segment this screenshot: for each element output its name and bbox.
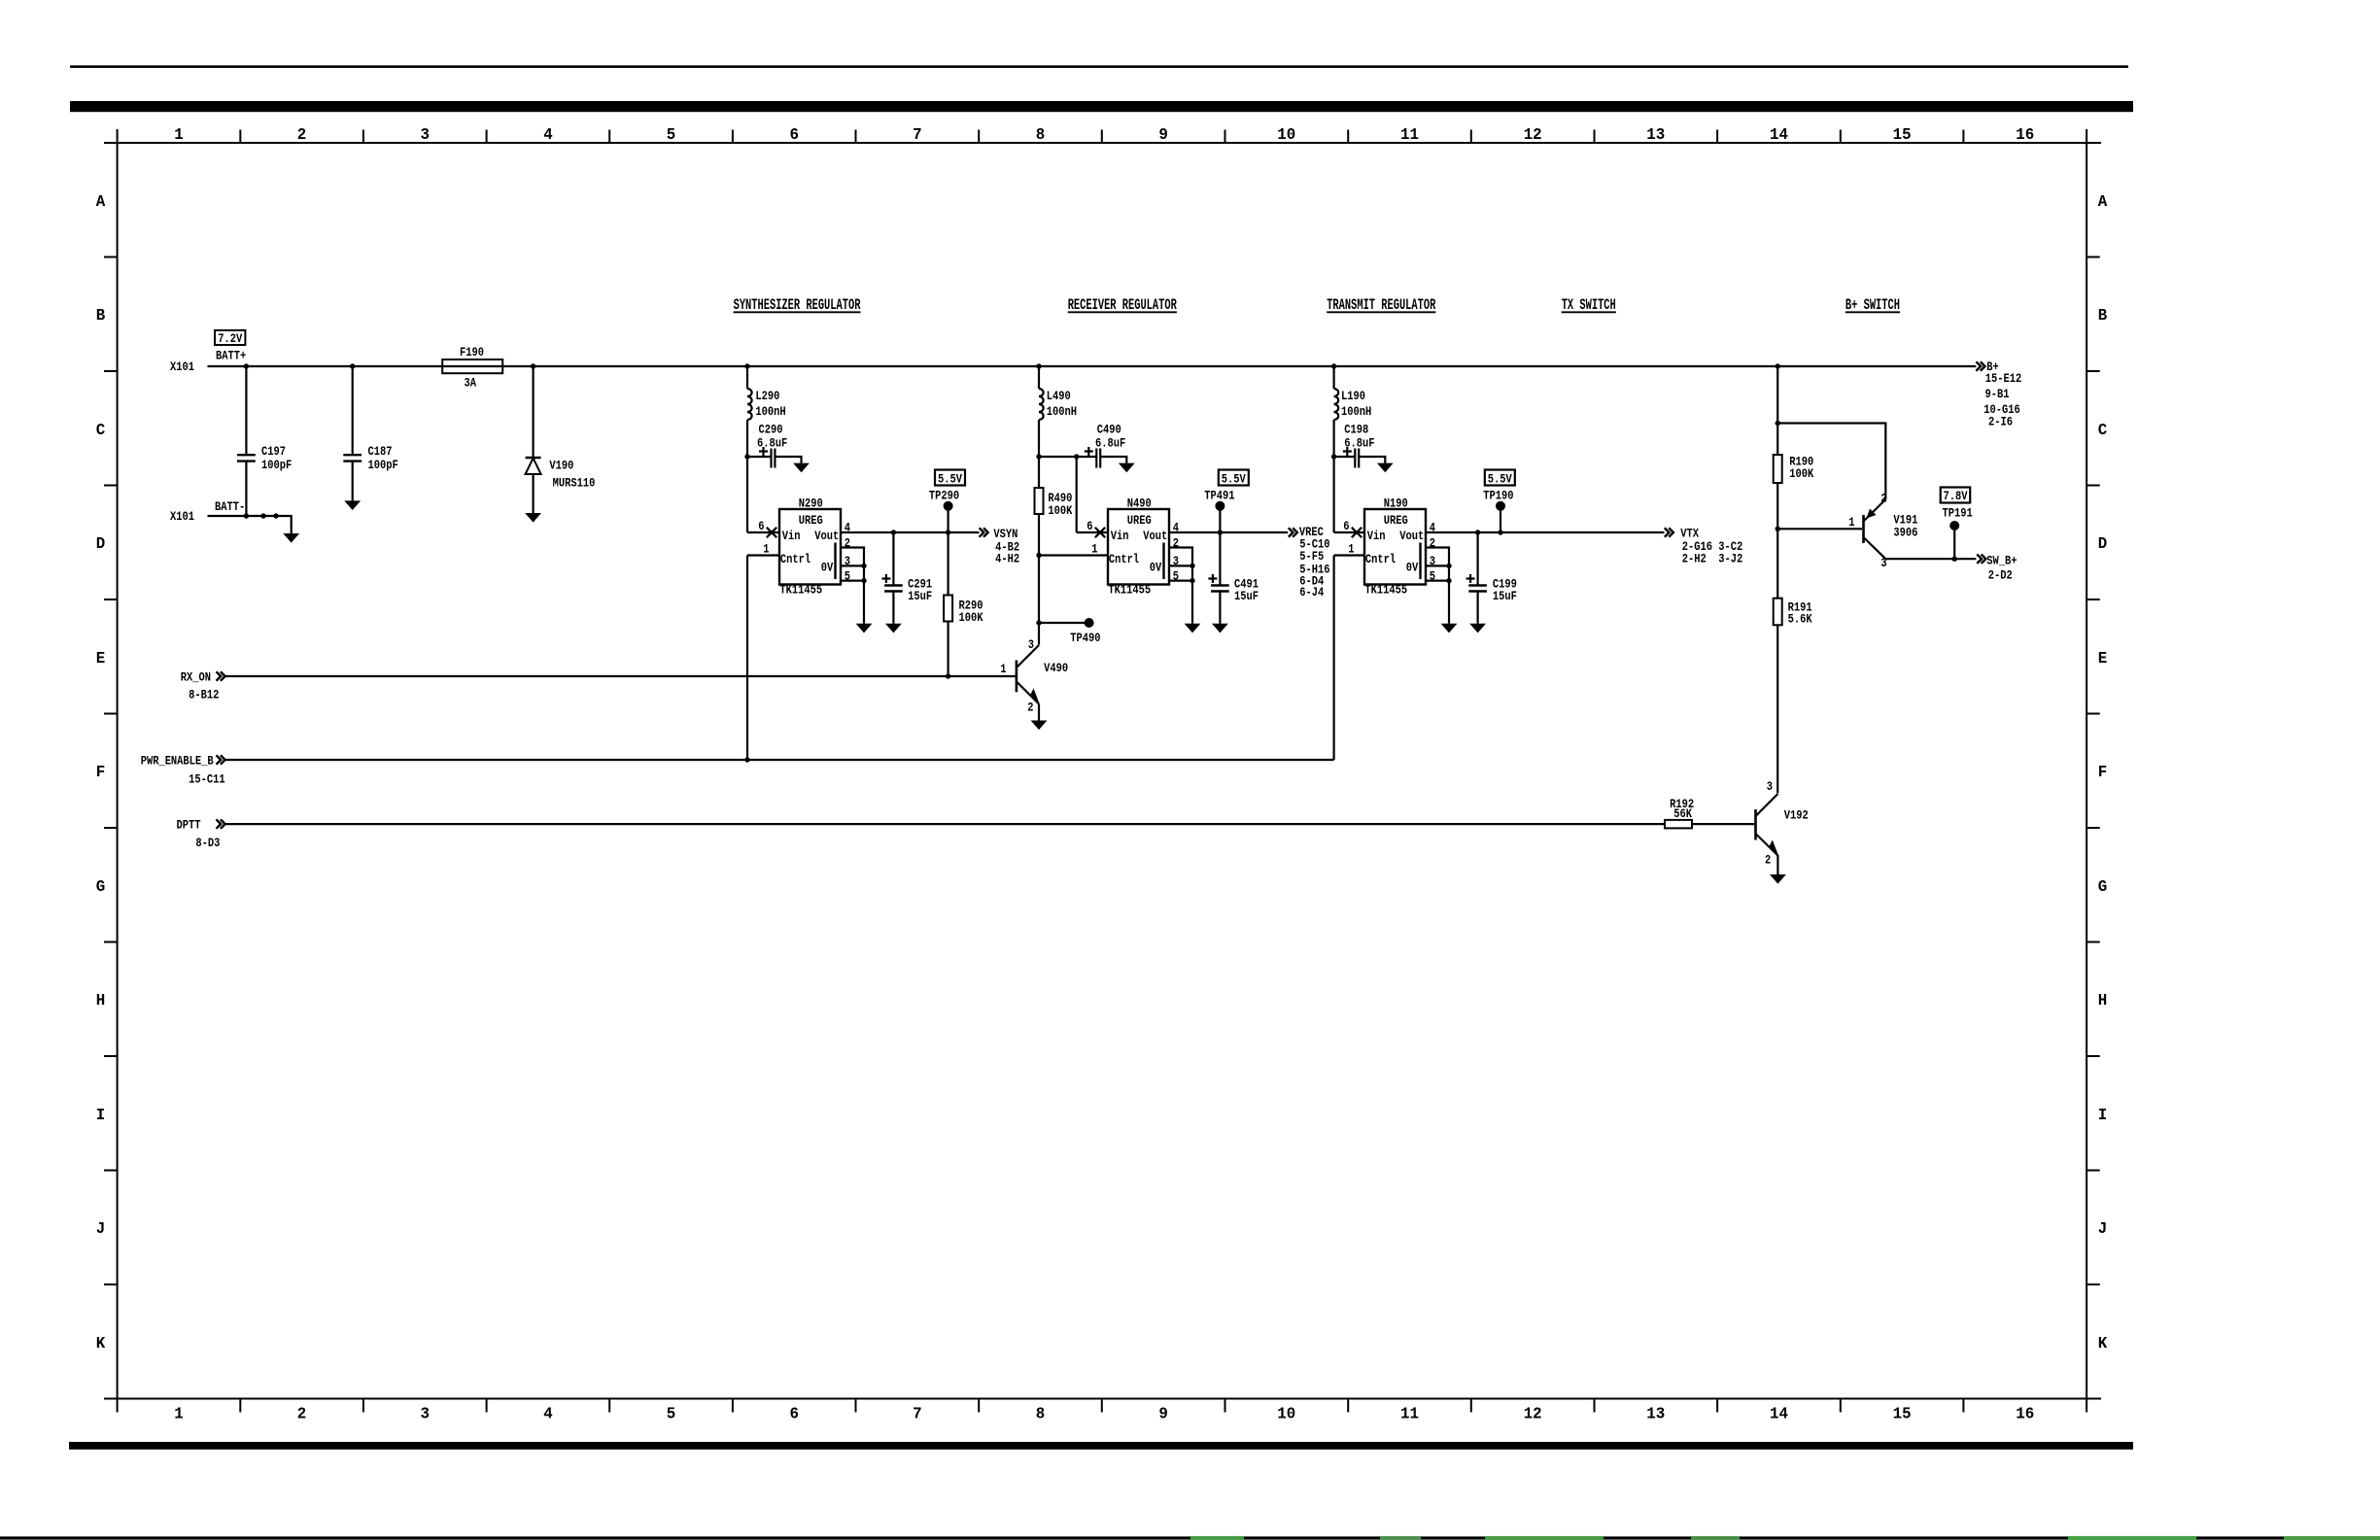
svg-text:100pF: 100pF bbox=[261, 458, 292, 473]
frame bottom ruler line bbox=[104, 1398, 2101, 1400]
svg-text:4: 4 bbox=[543, 1404, 553, 1423]
svg-text:2-I6: 2-I6 bbox=[1988, 414, 2013, 429]
section header B+ SWITCH bbox=[1845, 296, 1900, 314]
svg-text:6: 6 bbox=[1087, 519, 1092, 534]
svg-text:5.6K: 5.6K bbox=[1788, 611, 1813, 627]
capacitor C198 6.8uF bbox=[1334, 422, 1394, 472]
capacitor C490 6.8uF bbox=[1077, 422, 1135, 472]
junction C291 bbox=[891, 530, 896, 534]
svg-text:J: J bbox=[96, 1219, 105, 1239]
test point TP490 bbox=[1039, 618, 1100, 645]
ground C187 bbox=[344, 500, 361, 510]
svg-text:3906: 3906 bbox=[1893, 525, 1917, 540]
junction BATT+ / C197 bbox=[244, 363, 249, 368]
svg-text:UREG: UREG bbox=[799, 513, 823, 529]
svg-text:100K: 100K bbox=[959, 610, 984, 626]
svg-text:K: K bbox=[2098, 1333, 2108, 1352]
junction TP490 bbox=[1036, 620, 1041, 625]
svg-text:L290: L290 bbox=[755, 389, 779, 404]
svg-text:K: K bbox=[96, 1333, 106, 1352]
svg-text:5.5V: 5.5V bbox=[1488, 471, 1513, 487]
wire DPTT to R192 bbox=[224, 823, 1665, 825]
resistor R190 100K bbox=[1774, 454, 1814, 483]
svg-text:2: 2 bbox=[1880, 491, 1886, 506]
pin labels of N190 bbox=[1430, 520, 1435, 584]
svg-text:F: F bbox=[2098, 763, 2107, 782]
svg-text:TP290: TP290 bbox=[929, 488, 959, 503]
frame left border line bbox=[117, 129, 119, 1413]
svg-text:8-D3: 8-D3 bbox=[195, 836, 220, 851]
svg-text:100nH: 100nH bbox=[1341, 404, 1371, 420]
svg-text:TP190: TP190 bbox=[1483, 488, 1513, 503]
net arrow SW_B+ bbox=[1977, 553, 2017, 583]
svg-text:6: 6 bbox=[790, 125, 799, 145]
svg-text:12: 12 bbox=[1524, 1404, 1542, 1423]
junction C490 Vin branch bbox=[1074, 454, 1079, 459]
svg-text:B: B bbox=[96, 306, 106, 325]
svg-text:MURS110: MURS110 bbox=[553, 475, 596, 491]
capacitor C290 6.8uF bbox=[747, 422, 810, 472]
section header TRANSMIT REGULATOR bbox=[1327, 296, 1435, 314]
wire pins 2 3 5 of N290 to ground bbox=[841, 548, 867, 624]
junction PWR_ENABLE_B / N290 Cntrl bbox=[744, 757, 749, 762]
wire L290 to Vin bbox=[746, 420, 748, 532]
voltage regulator N490 TK11455 bbox=[1108, 496, 1169, 598]
ground V490 bbox=[1031, 721, 1048, 731]
svg-text:TK11455: TK11455 bbox=[779, 582, 822, 598]
svg-text:TRANSMIT REGULATOR: TRANSMIT REGULATOR bbox=[1327, 296, 1435, 314]
svg-text:BATT+: BATT+ bbox=[216, 348, 246, 363]
svg-text:B+ SWITCH: B+ SWITCH bbox=[1845, 296, 1900, 314]
svg-text:3: 3 bbox=[421, 1404, 431, 1423]
bottom edge line bbox=[0, 1536, 2380, 1539]
svg-text:100nH: 100nH bbox=[755, 404, 785, 420]
svg-text:1: 1 bbox=[174, 125, 184, 145]
svg-text:8: 8 bbox=[1036, 1404, 1045, 1423]
svg-text:L490: L490 bbox=[1047, 389, 1071, 404]
wire base tap to V191 bbox=[1777, 528, 1862, 530]
svg-text:2: 2 bbox=[1173, 535, 1179, 551]
wire to V191 emitter bbox=[1777, 424, 1885, 500]
net arrow DPTT bbox=[177, 817, 225, 850]
wire L190 to Vin bbox=[1332, 420, 1334, 532]
svg-text:TK11455: TK11455 bbox=[1108, 582, 1151, 598]
svg-text:2: 2 bbox=[1765, 852, 1771, 868]
resistor R490 100K bbox=[1035, 488, 1074, 556]
svg-text:2: 2 bbox=[1430, 535, 1435, 551]
svg-text:Cntrl: Cntrl bbox=[1365, 552, 1396, 567]
svg-text:Vin: Vin bbox=[782, 529, 801, 544]
fuse F190 3A bbox=[442, 345, 502, 391]
ground pins of N290 bbox=[856, 624, 873, 633]
wire R192 to V192 base bbox=[1692, 823, 1754, 825]
junction R290 / RX_ON bbox=[946, 673, 950, 678]
svg-text:15uF: 15uF bbox=[908, 589, 932, 604]
svg-text:8-B12: 8-B12 bbox=[189, 687, 219, 702]
pin labels of N290 bbox=[845, 520, 850, 584]
wire V191 collector to SW_B+ bbox=[1885, 558, 1976, 560]
svg-text:2-H2 3-J2: 2-H2 3-J2 bbox=[1682, 551, 1742, 566]
connector X101 BATT- pin bbox=[170, 499, 246, 525]
svg-text:1: 1 bbox=[763, 541, 769, 557]
resistor R192 56K bbox=[1665, 797, 1694, 828]
ground C491 bbox=[1212, 624, 1228, 633]
svg-text:N190: N190 bbox=[1384, 496, 1408, 511]
top thick bar bbox=[70, 101, 2133, 112]
ground V190 bbox=[525, 513, 541, 523]
svg-text:15-E12: 15-E12 bbox=[1985, 371, 2021, 387]
pin labels of N490 bbox=[1173, 520, 1179, 584]
svg-text:G: G bbox=[2098, 876, 2108, 896]
section header SYNTHESIZER REGULATOR bbox=[734, 296, 861, 314]
wire R190 to R191 bbox=[1776, 483, 1778, 599]
svg-text:G: G bbox=[96, 876, 106, 896]
column numbers bottom bbox=[174, 1404, 2034, 1423]
svg-text:E: E bbox=[96, 648, 106, 667]
svg-text:SW_B+: SW_B+ bbox=[1986, 553, 2017, 568]
ground V192 bbox=[1770, 874, 1786, 884]
svg-text:D: D bbox=[2098, 534, 2108, 554]
frame right border line bbox=[2086, 129, 2087, 1413]
svg-text:D: D bbox=[96, 534, 106, 554]
svg-text:F: F bbox=[96, 763, 105, 782]
junction L290 bbox=[744, 363, 749, 368]
wire Cntrl pin 1 of N490 bbox=[1039, 541, 1108, 557]
svg-text:N490: N490 bbox=[1127, 496, 1152, 511]
voltage box 7.2V bbox=[215, 330, 245, 347]
inductor L190 100nH bbox=[1334, 389, 1372, 420]
junction L190 bbox=[1331, 363, 1336, 368]
svg-text:1: 1 bbox=[1000, 662, 1006, 677]
svg-text:15uF: 15uF bbox=[1493, 589, 1517, 604]
net arrow VREC bbox=[1289, 525, 1330, 600]
svg-text:E: E bbox=[2098, 648, 2108, 667]
svg-text:TX SWITCH: TX SWITCH bbox=[1562, 296, 1616, 314]
frame top ruler line bbox=[104, 142, 2101, 144]
wire Cntrl N190 down to PWR_ENABLE_B bbox=[1332, 556, 1334, 761]
wire L490 branch from bus bbox=[1038, 366, 1040, 389]
svg-text:Vin: Vin bbox=[1111, 529, 1129, 544]
svg-text:V192: V192 bbox=[1784, 807, 1809, 823]
diode V190 MURS110 bbox=[526, 366, 596, 513]
wire BATT- to ground bbox=[244, 513, 292, 533]
capacitor C291 15uF bbox=[881, 532, 932, 624]
svg-text:1: 1 bbox=[1348, 541, 1354, 557]
junction L490 bbox=[1036, 363, 1041, 368]
svg-text:5.5V: 5.5V bbox=[1222, 471, 1247, 487]
bottom thick bar bbox=[69, 1442, 2133, 1450]
svg-text:7: 7 bbox=[913, 125, 921, 145]
svg-text:2: 2 bbox=[845, 535, 850, 551]
svg-text:2: 2 bbox=[1027, 700, 1033, 715]
wire RX_ON to V490 base bbox=[224, 675, 1017, 677]
transistor V191 PNP 3906 bbox=[1848, 491, 1917, 570]
svg-text:BATT-: BATT- bbox=[215, 499, 245, 515]
svg-text:6.8uF: 6.8uF bbox=[1095, 435, 1125, 451]
wire B+ bus bbox=[246, 365, 1976, 367]
junction C290 bbox=[744, 454, 749, 459]
resistor R191 5.6K bbox=[1774, 599, 1813, 627]
svg-text:0V: 0V bbox=[1406, 560, 1419, 575]
wire R490 down to V490 collector bbox=[1038, 556, 1040, 645]
svg-text:A: A bbox=[96, 191, 106, 211]
wire pins 2 3 5 of N190 to ground bbox=[1426, 548, 1452, 624]
svg-text:5: 5 bbox=[667, 125, 675, 145]
svg-text:V190: V190 bbox=[549, 458, 573, 473]
svg-text:A: A bbox=[2098, 191, 2108, 211]
svg-text:0V: 0V bbox=[1150, 560, 1162, 575]
test point TP290 5.5V bbox=[935, 470, 965, 487]
frame column ticks top bbox=[240, 130, 1963, 144]
svg-text:15uF: 15uF bbox=[1234, 589, 1259, 604]
junction V191 base tap bbox=[1776, 527, 1780, 531]
wire B+ switch branch bbox=[1776, 366, 1778, 455]
svg-text:6.8uF: 6.8uF bbox=[1344, 435, 1374, 451]
capacitor C491 15uF bbox=[1208, 532, 1259, 624]
wire Cntrl pin 1 of N290 bbox=[747, 541, 779, 557]
frame row ticks right bbox=[2087, 257, 2100, 1285]
svg-text:1: 1 bbox=[174, 1404, 184, 1423]
wire C490 junction down to Vin N490 bbox=[1076, 457, 1078, 532]
svg-text:V490: V490 bbox=[1044, 661, 1068, 676]
svg-text:7.2V: 7.2V bbox=[218, 331, 243, 347]
svg-text:13: 13 bbox=[1646, 125, 1665, 145]
svg-text:14: 14 bbox=[1770, 125, 1788, 145]
svg-text:Vout: Vout bbox=[1399, 529, 1424, 544]
top thin rule bbox=[70, 65, 2128, 68]
junction V191 emitter feed bbox=[1776, 421, 1780, 426]
svg-text:I: I bbox=[96, 1105, 105, 1124]
inductor L290 100nH bbox=[747, 389, 786, 420]
svg-text:RECEIVER REGULATOR: RECEIVER REGULATOR bbox=[1068, 296, 1177, 314]
svg-text:56K: 56K bbox=[1673, 806, 1693, 822]
svg-text:C: C bbox=[2098, 420, 2108, 439]
svg-text:DPTT: DPTT bbox=[177, 817, 201, 833]
row letters left bbox=[96, 191, 106, 1352]
svg-text:7: 7 bbox=[913, 1404, 921, 1423]
svg-text:10: 10 bbox=[1277, 1404, 1295, 1423]
svg-text:100K: 100K bbox=[1048, 503, 1073, 519]
svg-text:C: C bbox=[96, 420, 106, 439]
svg-text:16: 16 bbox=[2016, 125, 2034, 145]
svg-text:H: H bbox=[96, 991, 105, 1010]
wire L190 branch from bus bbox=[1332, 366, 1334, 389]
wire Vout N290 to VSYN bbox=[841, 531, 980, 533]
svg-text:3: 3 bbox=[1767, 779, 1773, 795]
svg-text:Vin: Vin bbox=[1367, 529, 1386, 544]
svg-text:Cntrl: Cntrl bbox=[1109, 552, 1139, 567]
svg-text:J: J bbox=[2098, 1219, 2107, 1239]
svg-text:15: 15 bbox=[1893, 1404, 1912, 1423]
wire Vin pin 6 of N190 bbox=[1334, 519, 1364, 537]
svg-text:Cntrl: Cntrl bbox=[780, 552, 811, 567]
svg-text:1: 1 bbox=[1091, 541, 1097, 557]
svg-text:8: 8 bbox=[1036, 125, 1045, 145]
net arrow VTX bbox=[1665, 526, 1742, 566]
test point TP190 5.5V bbox=[1485, 470, 1515, 487]
junction TP190 bbox=[1498, 530, 1502, 534]
junction C199 bbox=[1475, 530, 1480, 534]
svg-text:SYNTHESIZER REGULATOR: SYNTHESIZER REGULATOR bbox=[734, 296, 861, 314]
svg-text:9: 9 bbox=[1158, 125, 1167, 145]
svg-text:Vout: Vout bbox=[814, 529, 839, 544]
test point TP491 5.5V bbox=[1219, 470, 1249, 487]
svg-text:16: 16 bbox=[2016, 1404, 2034, 1423]
svg-text:7.8V: 7.8V bbox=[1944, 489, 1969, 504]
wire L290 branch from bus bbox=[746, 366, 748, 389]
svg-text:I: I bbox=[2098, 1105, 2107, 1124]
junction V190 bbox=[531, 363, 535, 368]
svg-text:11: 11 bbox=[1400, 1404, 1419, 1423]
resistor R290 100K bbox=[944, 532, 983, 676]
svg-text:6.8uF: 6.8uF bbox=[757, 435, 787, 451]
svg-text:10: 10 bbox=[1277, 125, 1295, 145]
svg-text:3: 3 bbox=[1028, 637, 1034, 653]
wire Vout N190 to VTX bbox=[1426, 531, 1665, 533]
ground pins of N190 bbox=[1441, 624, 1458, 633]
wire Cntrl pin 1 of N190 bbox=[1334, 541, 1364, 557]
net arrow RX_ON bbox=[181, 669, 225, 702]
ground C291 bbox=[885, 624, 902, 633]
wire V192 emitter to ground bbox=[1776, 855, 1778, 874]
svg-text:6: 6 bbox=[1343, 519, 1349, 534]
svg-text:L190: L190 bbox=[1341, 389, 1365, 404]
junction B+ switch bbox=[1776, 363, 1780, 368]
svg-text:TK11455: TK11455 bbox=[1364, 582, 1407, 598]
net arrow B+ out bbox=[1976, 359, 2021, 429]
inductor L490 100nH bbox=[1039, 389, 1077, 420]
section header TX SWITCH bbox=[1562, 296, 1616, 314]
svg-text:X101: X101 bbox=[170, 509, 194, 525]
svg-text:RX_ON: RX_ON bbox=[181, 669, 211, 685]
net arrow VSYN bbox=[980, 527, 1019, 566]
svg-text:6: 6 bbox=[790, 1404, 799, 1423]
svg-text:TP490: TP490 bbox=[1070, 631, 1100, 646]
svg-text:4: 4 bbox=[543, 125, 553, 145]
svg-text:4-H2: 4-H2 bbox=[995, 551, 1019, 566]
svg-text:14: 14 bbox=[1770, 1404, 1788, 1423]
wire Vout N490 to VREC bbox=[1169, 531, 1288, 533]
wire Cntrl N290 down to PWR_ENABLE_B bbox=[746, 556, 748, 761]
svg-text:3A: 3A bbox=[465, 375, 477, 391]
svg-text:100nH: 100nH bbox=[1047, 404, 1077, 420]
svg-text:Vout: Vout bbox=[1143, 529, 1167, 544]
wire L490 to R490 bbox=[1038, 420, 1040, 488]
junction L490 / C490 bbox=[1036, 454, 1041, 459]
svg-text:15-C11: 15-C11 bbox=[189, 771, 224, 787]
net label BATT+ bbox=[216, 348, 246, 363]
ground BATT- bbox=[283, 533, 299, 543]
frame row ticks left bbox=[104, 257, 118, 1285]
wire Vin pin 6 of N490 bbox=[1077, 519, 1108, 537]
test point TP191 7.8V bbox=[1941, 488, 1973, 560]
junction C198 bbox=[1331, 454, 1336, 459]
svg-text:0V: 0V bbox=[821, 560, 834, 575]
transistor V490 NPN bbox=[1000, 637, 1068, 715]
voltage regulator N190 TK11455 bbox=[1364, 496, 1426, 598]
svg-text:TP491: TP491 bbox=[1204, 488, 1234, 503]
svg-text:X101: X101 bbox=[170, 359, 194, 375]
svg-text:F190: F190 bbox=[460, 345, 484, 360]
svg-text:6: 6 bbox=[758, 519, 764, 534]
net arrow PWR_ENABLE_B bbox=[141, 753, 225, 787]
capacitor C197 bbox=[237, 366, 292, 516]
svg-text:9: 9 bbox=[1158, 1404, 1167, 1423]
frame column ticks bottom bbox=[240, 1399, 1963, 1413]
capacitor C187 bbox=[343, 366, 397, 500]
svg-text:5: 5 bbox=[667, 1404, 675, 1423]
svg-text:11: 11 bbox=[1400, 125, 1419, 145]
wire junction to C490 bbox=[1039, 456, 1077, 458]
transistor V192 NPN bbox=[1756, 779, 1809, 868]
wire R191 to V192 collector bbox=[1776, 625, 1778, 793]
wire PWR_ENABLE_B bbox=[224, 759, 1334, 761]
junction TP491 / C491 bbox=[1218, 530, 1223, 534]
svg-text:100pF: 100pF bbox=[368, 458, 398, 473]
svg-text:PWR_ENABLE_B: PWR_ENABLE_B bbox=[141, 753, 214, 769]
svg-text:B: B bbox=[2098, 306, 2108, 325]
svg-text:15: 15 bbox=[1893, 125, 1912, 145]
svg-text:9-B1: 9-B1 bbox=[1985, 387, 2010, 402]
svg-text:TP191: TP191 bbox=[1943, 505, 1973, 521]
svg-text:UREG: UREG bbox=[1127, 513, 1152, 529]
column numbers top bbox=[174, 125, 2034, 145]
junction Cntrl N490 / R490 bbox=[1036, 553, 1041, 558]
svg-text:UREG: UREG bbox=[1384, 513, 1408, 529]
connector X101 BATT+ pin bbox=[170, 359, 246, 375]
voltage regulator N290 TK11455 bbox=[779, 496, 841, 598]
wire pins 2 3 5 of N490 to ground bbox=[1169, 548, 1195, 624]
svg-text:5.5V: 5.5V bbox=[938, 471, 963, 487]
svg-text:100K: 100K bbox=[1789, 466, 1814, 482]
svg-text:13: 13 bbox=[1646, 1404, 1665, 1423]
ground C199 bbox=[1469, 624, 1486, 633]
section header RECEIVER REGULATOR bbox=[1068, 296, 1177, 314]
svg-text:N290: N290 bbox=[799, 496, 823, 511]
svg-text:6-J4: 6-J4 bbox=[1299, 585, 1324, 600]
junction TP191 bbox=[1952, 557, 1957, 562]
svg-text:12: 12 bbox=[1524, 125, 1542, 145]
svg-text:2: 2 bbox=[297, 125, 306, 145]
svg-text:1: 1 bbox=[1848, 515, 1854, 530]
junction TP290 / R290 bbox=[946, 530, 950, 534]
row letters right bbox=[2098, 191, 2108, 1352]
capacitor C199 15uF bbox=[1466, 532, 1517, 624]
wire V490 emitter to ground bbox=[1038, 704, 1040, 721]
ground pins of N490 bbox=[1185, 624, 1201, 633]
svg-text:2-D2: 2-D2 bbox=[1988, 567, 2013, 583]
svg-text:2: 2 bbox=[297, 1404, 306, 1423]
wire Vin pin 6 of N290 bbox=[747, 519, 779, 537]
svg-text:3: 3 bbox=[421, 125, 431, 145]
junction C187 bbox=[350, 363, 355, 368]
svg-text:H: H bbox=[2098, 991, 2107, 1010]
